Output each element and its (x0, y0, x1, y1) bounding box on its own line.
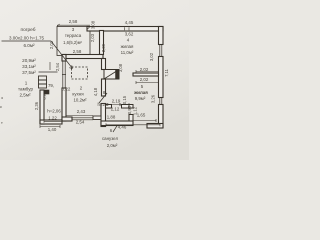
partition wall rooms 4/5 (133, 73, 159, 76)
terrace outline (room 3) (57, 27, 90, 56)
svg-text:37,5м²: 37,5м² (22, 70, 36, 75)
svg-text:2,54: 2,54 (55, 62, 60, 71)
svg-text:3,62: 3,62 (125, 32, 134, 37)
svg-text:3,08: 3,08 (91, 20, 96, 29)
svg-text:санузел: санузел (102, 136, 119, 141)
dim line 2,58 terrace top (57, 24, 90, 29)
svg-text:h=2,06: h=2,06 (47, 109, 61, 114)
kitchen east wall upper segment (102, 59, 106, 70)
svg-text:погреб: погреб (20, 27, 35, 33)
east wall window W2 (159, 98, 163, 105)
svg-text:т: т (1, 120, 3, 125)
room 6 north wall right segment (122, 105, 134, 109)
svg-text:79,: 79, (48, 83, 54, 88)
svg-text:жилая: жилая (133, 90, 148, 95)
room 6 east wall top (129, 105, 133, 109)
svg-text:кухня: кухня (72, 92, 84, 97)
svg-text:2,58: 2,58 (69, 19, 78, 24)
svg-text:1: 1 (25, 81, 28, 86)
svg-text:2,54: 2,54 (76, 120, 85, 125)
svg-text:4,45: 4,45 (125, 20, 134, 25)
svg-text:2,03: 2,03 (90, 33, 95, 42)
north wall (87, 27, 163, 32)
svg-text:3,26: 3,26 (151, 94, 156, 103)
east wall lower (159, 105, 164, 128)
svg-text:10,2м²: 10,2м² (73, 98, 87, 103)
svg-text:1,88: 1,88 (107, 115, 116, 120)
svg-text:20,9м²: 20,9м² (22, 58, 36, 63)
kitchen door leaf (93, 116, 101, 120)
svg-text:7,11: 7,11 (164, 68, 169, 77)
svg-text:3,08: 3,08 (118, 63, 123, 72)
svg-text:2,02: 2,02 (140, 77, 149, 82)
svg-text:2,02: 2,02 (140, 67, 149, 72)
door swing room 5 (99, 93, 107, 103)
dim line 4,46 (106, 123, 160, 126)
leader line room 6 label (113, 125, 118, 132)
svg-text:h=2,2: h=2,2 (97, 102, 109, 107)
svg-text:0,15: 0,15 (122, 95, 127, 104)
dim lines 2,02 / 2,02 (136, 70, 158, 84)
west house wall bottom segment (62, 88, 66, 121)
svg-text:4,46: 4,46 (118, 125, 127, 130)
cellar leader line with arrow (2, 41, 73, 69)
room 6 north wall left stub (106, 105, 112, 109)
svg-text:0,95: 0,95 (127, 105, 132, 114)
page-edge bleed marks (0, 95, 3, 125)
kitchen south wall thin part (72, 118, 93, 120)
svg-text:0,9: 0,9 (43, 95, 47, 100)
svg-text:1,6(5,2)м²: 1,6(5,2)м² (63, 40, 82, 45)
east wall upper (159, 27, 164, 45)
east wall middle (159, 57, 164, 98)
svg-text:1,65: 1,65 (137, 113, 146, 118)
stove between rooms 4 and 5 (104, 70, 119, 80)
entrance steps (39, 72, 58, 88)
dim tick left of kitchen (49, 62, 51, 70)
kitchen east wall lower segment (102, 79, 106, 96)
dim line 2,19 (107, 103, 129, 106)
west house wall top segment (62, 55, 66, 62)
room 6 east wall bottom (129, 115, 133, 122)
svg-text:3.00х2.00 h=1.75: 3.00х2.00 h=1.75 (9, 36, 44, 41)
svg-text:3,02: 3,02 (149, 52, 154, 61)
svg-text:33,1м²: 33,1м² (22, 64, 36, 69)
tambour north stub wall (40, 90, 49, 94)
room 6 south wall (101, 121, 133, 126)
svg-text:тамбур: тамбур (18, 87, 33, 92)
svg-text:2,58: 2,58 (73, 49, 82, 54)
paper background (0, 0, 189, 160)
svg-text:2,39: 2,39 (101, 43, 106, 52)
svg-text:2,36: 2,36 (34, 101, 39, 110)
svg-text:жилая: жилая (121, 44, 134, 49)
svg-text:11,0м²: 11,0м² (121, 50, 134, 55)
svg-text:1,12: 1,12 (133, 106, 138, 115)
svg-text:2,43: 2,43 (77, 109, 86, 114)
south wall right segment (147, 124, 163, 129)
dim line 1,40 tambour (40, 125, 60, 128)
svg-text:з: з (1, 95, 3, 100)
svg-text:0,22: 0,22 (62, 87, 71, 92)
svg-text:1,40: 1,40 (48, 127, 57, 132)
room 4 west wall (100, 31, 104, 55)
north wall opening (125, 27, 130, 30)
dim line 2,43 kitchen (66, 115, 93, 117)
svg-text:9,9м²: 9,9м² (135, 96, 146, 101)
svg-text:2,01: 2,01 (49, 40, 54, 49)
svg-text:6.0м²: 6.0м² (23, 43, 35, 48)
hall west wall (101, 104, 106, 127)
svg-text:терраса: терраса (65, 33, 82, 38)
svg-text:2,12: 2,12 (111, 107, 120, 112)
dim line 1,22 tambour (44, 120, 62, 123)
kitchen south wall thick part (62, 117, 72, 121)
tambour south wall (40, 120, 62, 124)
svg-text:2,0м²: 2,0м² (107, 143, 118, 148)
east wall window W1 (159, 45, 163, 57)
cellar hatch dashed rect (72, 67, 88, 79)
svg-text:4,18: 4,18 (93, 87, 98, 96)
svg-text:1,22: 1,22 (48, 116, 57, 121)
svg-text:с: с (0, 104, 2, 109)
svg-text:2,5м²: 2,5м² (19, 93, 31, 98)
tambour west wall (40, 90, 44, 124)
west house wall window (62, 61, 66, 88)
kitchen north wall (63, 55, 103, 59)
dim line 1,65 (133, 119, 156, 122)
